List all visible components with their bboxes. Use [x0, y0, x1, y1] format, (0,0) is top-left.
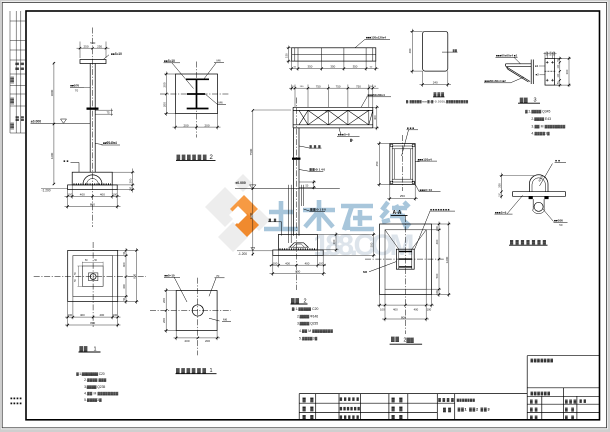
svg-text:■■■δ=6: ■■■δ=6 — [495, 210, 507, 214]
svg-text:■1: ■1 — [535, 64, 539, 68]
svg-text:▓:1.▓▓▓▓ Q345: ▓:1.▓▓▓▓ Q345 — [525, 110, 550, 114]
svg-text:500: 500 — [90, 41, 95, 45]
svg-text:350: 350 — [498, 183, 502, 188]
svg-text:-1.200: -1.200 — [42, 189, 51, 193]
svg-text:±0.000: ±0.000 — [31, 119, 41, 123]
svg-text:900: 900 — [133, 273, 137, 278]
svg-text:800: 800 — [295, 270, 300, 274]
svg-text:▓▓▓▓▓▓▓: ▓▓▓▓▓▓▓ — [531, 358, 554, 363]
svg-text:▓▓: ▓▓ — [15, 62, 19, 70]
svg-text:4.▓▓ M ▓▓▓▓▓▓▓▓: 4.▓▓ M ▓▓▓▓▓▓▓▓ — [84, 392, 119, 396]
svg-text:▓▓▓▓▓▓▓: ▓▓▓▓▓▓▓ — [457, 398, 476, 402]
svg-text:▓▓Φ180: ▓▓Φ180 — [310, 208, 326, 212]
svg-text:±0.000: ±0.000 — [235, 181, 245, 185]
svg-text:1: 1 — [210, 368, 213, 374]
svg-text:100: 100 — [112, 192, 117, 196]
svg-text:100: 100 — [273, 261, 278, 265]
svg-text:■■■60x60x4 ■2: ■■■60x60x4 ■2 — [485, 79, 507, 83]
svg-text:400: 400 — [435, 239, 439, 244]
svg-text:2▓▓: 2▓▓ — [404, 337, 415, 344]
svg-text:■■δ=10: ■■δ=10 — [164, 274, 175, 278]
svg-text:▓▓▓▓▓▓: ▓▓▓▓▓▓ — [176, 367, 206, 374]
svg-text:100: 100 — [380, 307, 385, 311]
svg-text:■■: ■■ — [555, 159, 560, 163]
svg-text:■■Φ140x4: ■■Φ140x4 — [103, 141, 117, 145]
svg-text:450: 450 — [375, 161, 379, 166]
svg-text:250: 250 — [400, 194, 405, 198]
svg-text:150: 150 — [285, 53, 289, 58]
svg-text:A-A: A-A — [393, 210, 402, 216]
svg-text:■■Φ76: ■■Φ76 — [70, 83, 79, 87]
svg-text:▓▓▓▓▓▓: ▓▓▓▓▓▓ — [340, 406, 361, 410]
svg-text:■■■60x60x4 ■1: ■■■60x60x4 ■1 — [496, 54, 518, 58]
svg-text:2: 2 — [304, 298, 307, 304]
svg-text:■■■■■■■■: ■■■■■■■■ — [430, 207, 449, 211]
svg-text:100: 100 — [68, 313, 73, 317]
svg-text:▓▓: ▓▓ — [453, 48, 457, 52]
svg-text:5.▓▓▓▓3▓: 5.▓▓▓▓3▓ — [84, 398, 102, 402]
svg-text:400: 400 — [99, 313, 104, 317]
svg-text:100: 100 — [113, 313, 118, 317]
svg-text:400: 400 — [408, 48, 412, 53]
svg-text:▓▓: ▓▓ — [20, 115, 24, 121]
svg-text:240: 240 — [433, 80, 438, 84]
svg-text:▓1: ▓1 — [350, 138, 354, 142]
svg-text:(▓▓): (▓▓) — [10, 122, 14, 130]
svg-text:▓▓Φ140: ▓▓Φ140 — [310, 168, 326, 172]
svg-text:1200: 1200 — [445, 256, 449, 263]
svg-text:400: 400 — [373, 115, 377, 120]
svg-text:■■δ=10: ■■δ=10 — [164, 59, 175, 63]
svg-text:300: 300 — [332, 239, 336, 244]
svg-text:M6: M6 — [363, 270, 367, 274]
svg-text:■■■■: ■■■■ — [10, 402, 22, 406]
svg-text:350: 350 — [353, 65, 358, 69]
svg-text:200: 200 — [162, 298, 166, 303]
svg-text:▓▓▓: ▓▓▓ — [310, 144, 322, 148]
svg-text:200: 200 — [205, 339, 210, 343]
svg-text:■■Φ50: ■■Φ50 — [554, 219, 563, 223]
svg-text:3000: 3000 — [50, 89, 54, 96]
svg-text:70: 70 — [216, 274, 220, 278]
svg-text:■■■60x60x4: ■■■60x60x4 — [368, 93, 385, 97]
svg-text:400: 400 — [285, 261, 290, 265]
svg-text:3: 3 — [534, 98, 537, 104]
svg-text:■■■■: ■■■■ — [10, 396, 22, 400]
svg-text:400: 400 — [100, 192, 105, 196]
svg-text:■■■120x4: ■■■120x4 — [418, 157, 432, 161]
svg-text:750: 750 — [336, 84, 341, 88]
svg-text:100: 100 — [427, 307, 432, 311]
svg-text:■■■δ=8: ■■■δ=8 — [338, 133, 350, 137]
svg-text:▓▓: ▓▓ — [79, 345, 87, 352]
svg-text:5.▓▓▓▓3▓: 5.▓▓▓▓3▓ — [299, 336, 318, 340]
svg-text:750: 750 — [316, 84, 321, 88]
svg-text:70: 70 — [75, 88, 79, 92]
svg-text:200: 200 — [162, 82, 166, 87]
svg-text:▓:1.▓▓▓▓▓▓▓ C20: ▓:1.▓▓▓▓▓▓▓ C20 — [76, 372, 105, 376]
svg-text:3.▓▓▓▓ Q235: 3.▓▓▓▓ Q235 — [297, 322, 318, 326]
svg-text:1200: 1200 — [50, 152, 54, 159]
svg-text:400: 400 — [80, 313, 85, 317]
svg-text:■■: ■■ — [64, 159, 69, 163]
svg-text:100: 100 — [319, 261, 324, 265]
svg-text:▓▓: ▓▓ — [15, 115, 19, 121]
svg-text:2.▓▓▓▓ Φ146: 2.▓▓▓▓ Φ146 — [297, 314, 318, 318]
svg-text:150: 150 — [130, 186, 133, 191]
svg-text:400: 400 — [122, 262, 126, 267]
svg-text:3.▓▓▓▓ Q235: 3.▓▓▓▓ Q235 — [84, 385, 105, 389]
svg-text:(▓▓): (▓▓) — [10, 97, 14, 105]
svg-text:2.▓▓▓▓ E43: 2.▓▓▓▓ E43 — [531, 117, 551, 121]
svg-text:50: 50 — [559, 223, 563, 227]
svg-text:4.▓▓ M ▓▓▓▓▓▓▓▓: 4.▓▓ M ▓▓▓▓▓▓▓▓ — [299, 329, 333, 333]
svg-text:800: 800 — [401, 315, 406, 319]
svg-text:M6: M6 — [223, 318, 227, 322]
svg-text:▓▓: ▓▓ — [580, 399, 587, 403]
svg-text:■2: ■2 — [536, 73, 540, 77]
svg-text:200: 200 — [184, 339, 189, 343]
svg-text:▓▓: ▓▓ — [391, 336, 399, 343]
svg-text:7500: 7500 — [249, 148, 253, 155]
svg-text:▓▓: ▓▓ — [20, 62, 24, 70]
svg-text:400: 400 — [393, 307, 398, 311]
svg-text:1: 1 — [94, 346, 97, 352]
svg-text:■■■δ=10: ■■■δ=10 — [420, 188, 433, 192]
svg-text:800: 800 — [90, 321, 95, 325]
svg-text:4.▓▓▓▓3▓: 4.▓▓▓▓3▓ — [531, 132, 550, 136]
svg-text:250: 250 — [83, 44, 88, 48]
svg-text:75: 75 — [107, 111, 111, 115]
svg-text:▓▓▓▓: ▓▓▓▓ — [438, 397, 454, 402]
svg-text:3.▓▓ M ▓▓▓▓▓▓▓▓: 3.▓▓ M ▓▓▓▓▓▓▓▓ — [531, 125, 565, 129]
svg-text:500: 500 — [435, 273, 439, 278]
svg-text:-1.200: -1.200 — [238, 252, 247, 256]
svg-text:▓▓: ▓▓ — [291, 297, 299, 304]
svg-text:200: 200 — [204, 123, 209, 127]
svg-text:200: 200 — [162, 318, 166, 323]
svg-text:350: 350 — [307, 65, 312, 69]
svg-text:100: 100 — [435, 290, 439, 295]
svg-text:M6: M6 — [217, 59, 221, 63]
svg-text:▓▓▓▓▓▓: ▓▓▓▓▓▓ — [177, 154, 207, 161]
svg-text:400: 400 — [305, 261, 310, 265]
svg-text:100: 100 — [67, 192, 72, 196]
svg-text:200: 200 — [162, 102, 166, 107]
svg-text:300: 300 — [565, 69, 569, 74]
svg-text:400: 400 — [414, 307, 419, 311]
svg-text:400: 400 — [80, 192, 85, 196]
svg-text:(▓▓): (▓▓) — [10, 76, 14, 84]
svg-text:▓:▓▓▓▓▓mm▓(▓-0.000),▓▓▓▓▓▓▓▓▓: ▓:▓▓▓▓▓mm▓(▓-0.000),▓▓▓▓▓▓▓▓▓ — [406, 99, 469, 103]
svg-text:▓:1.▓▓▓▓▓ C20: ▓:1.▓▓▓▓▓ C20 — [292, 307, 319, 311]
svg-text:100: 100 — [435, 226, 439, 231]
svg-text:500: 500 — [369, 242, 373, 247]
svg-text:200: 200 — [183, 123, 188, 127]
svg-text:750: 750 — [356, 84, 361, 88]
svg-text:400: 400 — [122, 284, 126, 289]
svg-text:188.COM: 188.COM — [313, 229, 415, 262]
svg-text:■■■120x120x4: ■■■120x120x4 — [366, 36, 386, 40]
svg-text:1200: 1200 — [249, 212, 253, 219]
svg-text:800: 800 — [90, 203, 95, 207]
svg-text:350: 350 — [330, 65, 335, 69]
svg-text:▓▓▓▓▓▓: ▓▓▓▓▓▓ — [531, 390, 551, 395]
svg-text:200: 200 — [129, 178, 133, 183]
svg-text:M6: M6 — [219, 101, 223, 105]
svg-text:▓▓: ▓▓ — [520, 96, 528, 103]
svg-text:■■δ=10: ■■δ=10 — [111, 52, 122, 56]
svg-text:2.▓▓▓▓ ▓▓▓: 2.▓▓▓▓ ▓▓▓ — [84, 378, 107, 382]
svg-text:250: 250 — [97, 44, 102, 48]
svg-text:■■■: ■■■ — [407, 126, 414, 130]
